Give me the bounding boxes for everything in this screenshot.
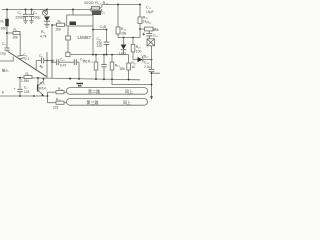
resistor R19 hanger xyxy=(111,55,113,62)
node junction dot on right rail at x118 xyxy=(117,4,119,6)
node dot C12 on mid bus xyxy=(106,54,108,56)
svg-text:20k: 20k xyxy=(13,36,19,40)
svg-text:4.7k: 4.7k xyxy=(40,35,47,39)
svg-text:VD₁₂: VD₁₂ xyxy=(142,54,150,58)
ground under C2 xyxy=(23,20,28,22)
wire mid horizontal bus xyxy=(70,54,129,56)
capacitor C10 vertical plates xyxy=(56,59,58,65)
node dot x47.5 y96 xyxy=(47,95,49,97)
svg-text:1.5M: 1.5M xyxy=(21,79,29,83)
wire input terminal corner xyxy=(0,57,13,62)
svg-text:R₂₁: R₂₁ xyxy=(147,21,153,25)
svg-text:50k: 50k xyxy=(120,67,126,71)
node junction dot at x7 y33 xyxy=(6,32,8,34)
resistor R15 box top cluster xyxy=(93,11,101,15)
svg-text:R₁₇: R₁₇ xyxy=(88,60,94,64)
wire IC right pin down to mid bus xyxy=(92,26,94,55)
svg-text:R₆: R₆ xyxy=(41,30,45,34)
node junction dot right rail end x140 xyxy=(139,4,141,6)
node bus dot x112 xyxy=(111,78,113,80)
resistor R21 box xyxy=(145,27,154,31)
bar second channel rounded box xyxy=(67,99,148,106)
wire bottom ground bus xyxy=(17,78,140,80)
resistor R1 vertical dark body xyxy=(6,19,9,26)
diode VD1 on x47 chain xyxy=(44,17,50,22)
resistor R14 box top cluster xyxy=(92,6,100,10)
svg-text:10μF: 10μF xyxy=(146,10,154,14)
resistor R22 hanger xyxy=(128,55,130,63)
node dot feedback right xyxy=(106,29,108,31)
node dot x52 on C5 wire xyxy=(51,60,53,62)
svg-text:103: 103 xyxy=(24,90,30,94)
svg-text:20k: 20k xyxy=(56,27,62,31)
wire top-left supply rail xyxy=(2,9,90,11)
svg-text:4μ: 4μ xyxy=(40,65,44,69)
svg-text:同上: 同上 xyxy=(125,88,133,94)
wire stub below C1 xyxy=(6,50,8,52)
wire C5 left stub down to wiper xyxy=(35,61,37,71)
svg-text:223: 223 xyxy=(53,106,59,110)
wire left vertical from rail down xyxy=(6,10,8,49)
jack J1 connector box with X xyxy=(147,39,155,46)
svg-text:0.47: 0.47 xyxy=(60,63,67,67)
wire R16 chain from right rail xyxy=(117,5,119,28)
wire series branch y62 xyxy=(52,61,57,63)
IC U1 box outline xyxy=(67,15,93,26)
svg-text:R₁₈: R₁₈ xyxy=(136,45,142,49)
svg-text:C₉8: C₉8 xyxy=(100,24,107,29)
wire IC output pin down xyxy=(67,26,69,36)
node bus dot x79 xyxy=(78,78,80,80)
svg-text:第二路: 第二路 xyxy=(88,88,100,94)
wire right edge vertical down xyxy=(151,46,153,70)
svg-text:300Ω R₁₄ R₁₅: 300Ω R₁₄ R₁₅ xyxy=(84,1,109,5)
node dot R21 tap xyxy=(139,28,141,30)
IC pins dark blob inside xyxy=(70,22,77,26)
svg-text:1k: 1k xyxy=(131,65,135,69)
node dot R22 at bus xyxy=(128,79,130,81)
svg-text:2.2μ: 2.2μ xyxy=(144,65,151,69)
svg-text:+: + xyxy=(143,33,145,37)
svg-text:100: 100 xyxy=(136,49,142,53)
capacitor C12 vertical xyxy=(106,30,108,43)
capacitor C14 hanger xyxy=(103,55,105,65)
node junction dot on rail at x47 xyxy=(46,9,48,11)
wire R8 branch xyxy=(52,24,57,26)
capacitor C7 vertical on x20 xyxy=(19,78,21,89)
resistor R16 box xyxy=(116,27,120,34)
wire R20 chain xyxy=(139,5,141,18)
wire top-right supply rail xyxy=(102,4,141,6)
svg-text:2200μ: 2200μ xyxy=(16,16,25,20)
wire R21 horizontal xyxy=(140,28,145,30)
svg-text:C₅: C₅ xyxy=(39,54,43,58)
lamp indicator circle on x47 chain xyxy=(46,9,48,12)
wire IC pin stub top right xyxy=(92,13,94,15)
node dot x52 top at R8 wire xyxy=(51,24,53,26)
svg-text:LED: LED xyxy=(119,51,126,55)
node bus dot x104 xyxy=(103,78,105,80)
resistor R17 hanger xyxy=(95,55,97,62)
svg-text:R₁₆: R₁₆ xyxy=(121,27,127,31)
node bus dot x70 xyxy=(69,78,71,80)
svg-text:+: + xyxy=(14,87,16,91)
node dot bus tail joins right vertical xyxy=(151,84,153,86)
node dot output stub xyxy=(151,72,153,74)
transistor VT1 xyxy=(37,78,39,84)
wire bias horizontal xyxy=(118,37,140,39)
diode VD2 horizontal xyxy=(133,59,138,61)
bar first channel rounded box xyxy=(67,88,148,95)
svg-text:C₁₇: C₁₇ xyxy=(146,6,152,10)
node junction dot on rail at x31.5 xyxy=(31,9,33,11)
node junction dot on rail at x73 xyxy=(72,9,74,11)
capacitor C2 vertical with ground xyxy=(25,10,27,15)
wire bus tail to right xyxy=(112,79,152,84)
svg-text:10μ: 10μ xyxy=(0,52,6,56)
wire bottom-left y96 xyxy=(0,95,48,97)
node dot x126 bias xyxy=(123,37,125,39)
node junction dot on rail at x25.5 xyxy=(25,9,27,11)
ground symbol below bus xyxy=(77,83,84,85)
svg-text:20k: 20k xyxy=(121,31,127,35)
svg-text:R₅: R₅ xyxy=(14,28,18,32)
ground under C3 xyxy=(29,20,34,22)
arrow head down to second bar xyxy=(150,96,153,99)
node dot right edge x151.5 xyxy=(151,59,153,61)
node bus dot x20 xyxy=(19,77,21,79)
capacitor C5 series coupling xyxy=(36,60,41,62)
capacitor C13 vertical plates xyxy=(73,59,75,65)
svg-text:R₂₄: R₂₄ xyxy=(58,87,64,91)
svg-text:输入: 输入 xyxy=(2,68,9,73)
resistor R18 xyxy=(132,38,134,45)
wire R5 branch horizontal xyxy=(7,32,13,34)
svg-text:同上: 同上 xyxy=(123,99,131,105)
ground under diode xyxy=(44,23,49,25)
resistor R8 box xyxy=(57,23,65,26)
svg-text:VT₁: VT₁ xyxy=(40,82,46,86)
node dot C7 bottom on y96 wire xyxy=(19,95,21,97)
svg-text:C₈: C₈ xyxy=(101,11,105,15)
resistor R20 box xyxy=(138,17,142,24)
resistor R7 box on bus xyxy=(24,76,32,79)
svg-text:10k: 10k xyxy=(1,27,7,31)
node dot x47 on C5 wire xyxy=(46,60,48,62)
node dot IC pin wire on mid bus xyxy=(92,54,94,56)
node junction dot on rail at x7 xyxy=(6,9,8,11)
wire vertical from R5 down to C4 xyxy=(19,33,21,56)
capacitor C4 plates xyxy=(18,55,24,56)
wire rail step between R14/R15 cluster xyxy=(100,5,102,9)
node dot feedback left xyxy=(92,29,94,31)
resistor R24 to first bar xyxy=(48,91,57,93)
svg-text:第三路: 第三路 xyxy=(87,99,99,105)
capacitor C18 plates on right vertical xyxy=(149,68,155,70)
svg-text:C₁₆: C₁₆ xyxy=(153,33,158,37)
svg-text:R₂₅: R₂₅ xyxy=(56,97,62,101)
svg-text:222: 222 xyxy=(97,44,103,48)
svg-text:0.1: 0.1 xyxy=(25,57,30,61)
wire vertical x47 down to bus xyxy=(46,52,48,78)
component small box at output corner xyxy=(66,52,70,56)
svg-text:50k: 50k xyxy=(153,28,159,32)
svg-text:C₃: C₃ xyxy=(33,11,37,15)
node dot emitter on y96 xyxy=(33,95,35,97)
component box R9 in output path xyxy=(66,36,71,40)
resistor R5 box xyxy=(13,31,20,34)
node bus dot x38 xyxy=(37,77,39,79)
svg-text:R₈: R₈ xyxy=(58,19,62,23)
wire IC supply stub from rail xyxy=(72,10,74,16)
resistor R25 to second bar xyxy=(48,102,57,104)
wire joining R14 R15 left xyxy=(90,8,92,10)
wire vertical feed to channel resistors xyxy=(47,92,49,103)
LED D2 xyxy=(123,38,125,45)
capacitor C1 plates on left vertical xyxy=(5,47,10,49)
wire vertical x52 feedback down to bus xyxy=(51,25,53,78)
wire output stub to right edge xyxy=(152,72,161,74)
node bus dot x96 xyxy=(95,78,97,80)
svg-text:100μ: 100μ xyxy=(33,16,41,20)
svg-text:C₁₀: C₁₀ xyxy=(60,58,65,62)
svg-text:μ: μ xyxy=(2,90,4,94)
node dot x133 bias xyxy=(132,37,134,39)
capacitor C3 vertical with ground xyxy=(31,10,33,15)
wire volume pot diagonal wiper xyxy=(8,52,47,77)
svg-text:LM387: LM387 xyxy=(78,35,92,40)
wire feedback pin horizontal xyxy=(93,29,107,31)
svg-text:9014: 9014 xyxy=(39,87,46,91)
node dot branch at x52 xyxy=(51,61,53,63)
